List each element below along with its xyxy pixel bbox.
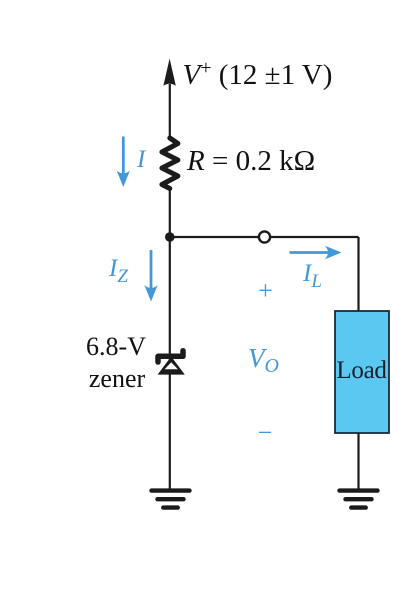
terminal open circle (259, 231, 270, 242)
zener diode D1 triangle (158, 357, 185, 375)
svg-text:VO: VO (248, 343, 279, 377)
wire main vertical branch (169, 84, 171, 138)
ground right (340, 491, 378, 508)
svg-text:IZ: IZ (108, 255, 128, 287)
wire right branch down to load (357, 237, 359, 311)
svg-text:6.8-V: 6.8-V (86, 332, 146, 361)
svg-text:IL: IL (302, 260, 322, 292)
load resistor box (335, 311, 389, 433)
node A junction dot (165, 232, 175, 242)
svg-text:Load: Load (336, 357, 387, 384)
ground left (152, 491, 190, 508)
resistor R (162, 138, 178, 189)
svg-text:+: + (258, 276, 273, 305)
wire node to ground (zener branch) (169, 237, 171, 489)
svg-text:R = 0.2 kΩ: R = 0.2 kΩ (186, 145, 315, 177)
wire resistor to node (169, 188, 171, 237)
arrow V+ supply (163, 59, 175, 86)
arrow current I (blue, down) (117, 137, 130, 188)
svg-text:I: I (136, 146, 147, 173)
arrow current IZ (blue, down) (144, 250, 157, 302)
wire load to ground (357, 433, 359, 489)
svg-text:−: − (258, 418, 273, 447)
svg-text:V+ (12 ±1 V): V+ (12 ±1 V) (183, 57, 333, 91)
zener diode D1 bar (158, 351, 183, 362)
arrow current IL (blue, right) (290, 246, 342, 259)
wire horizontal node to load branch (170, 236, 359, 238)
svg-text:zener: zener (89, 364, 146, 393)
